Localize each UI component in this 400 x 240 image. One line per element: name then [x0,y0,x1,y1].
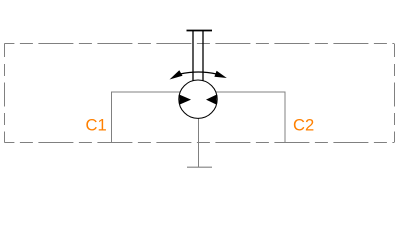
wire: C1 port line [112,92,182,143]
motor circle [179,80,217,118]
wire: C2 port line [215,92,285,143]
shaft [193,31,203,82]
flow triangle left [180,95,192,105]
rotation arrowhead right [214,71,226,78]
rotation arrow arc [180,72,217,74]
enclosure dashed border [4,44,394,143]
svg-text:C2: C2 [293,116,314,135]
drain end bar [187,166,212,168]
flow triangle right [206,95,217,105]
wire: drain line [198,116,200,167]
shaft end cap [187,30,213,32]
svg-text:C1: C1 [86,116,107,135]
rotation arrowhead left [170,70,183,79]
